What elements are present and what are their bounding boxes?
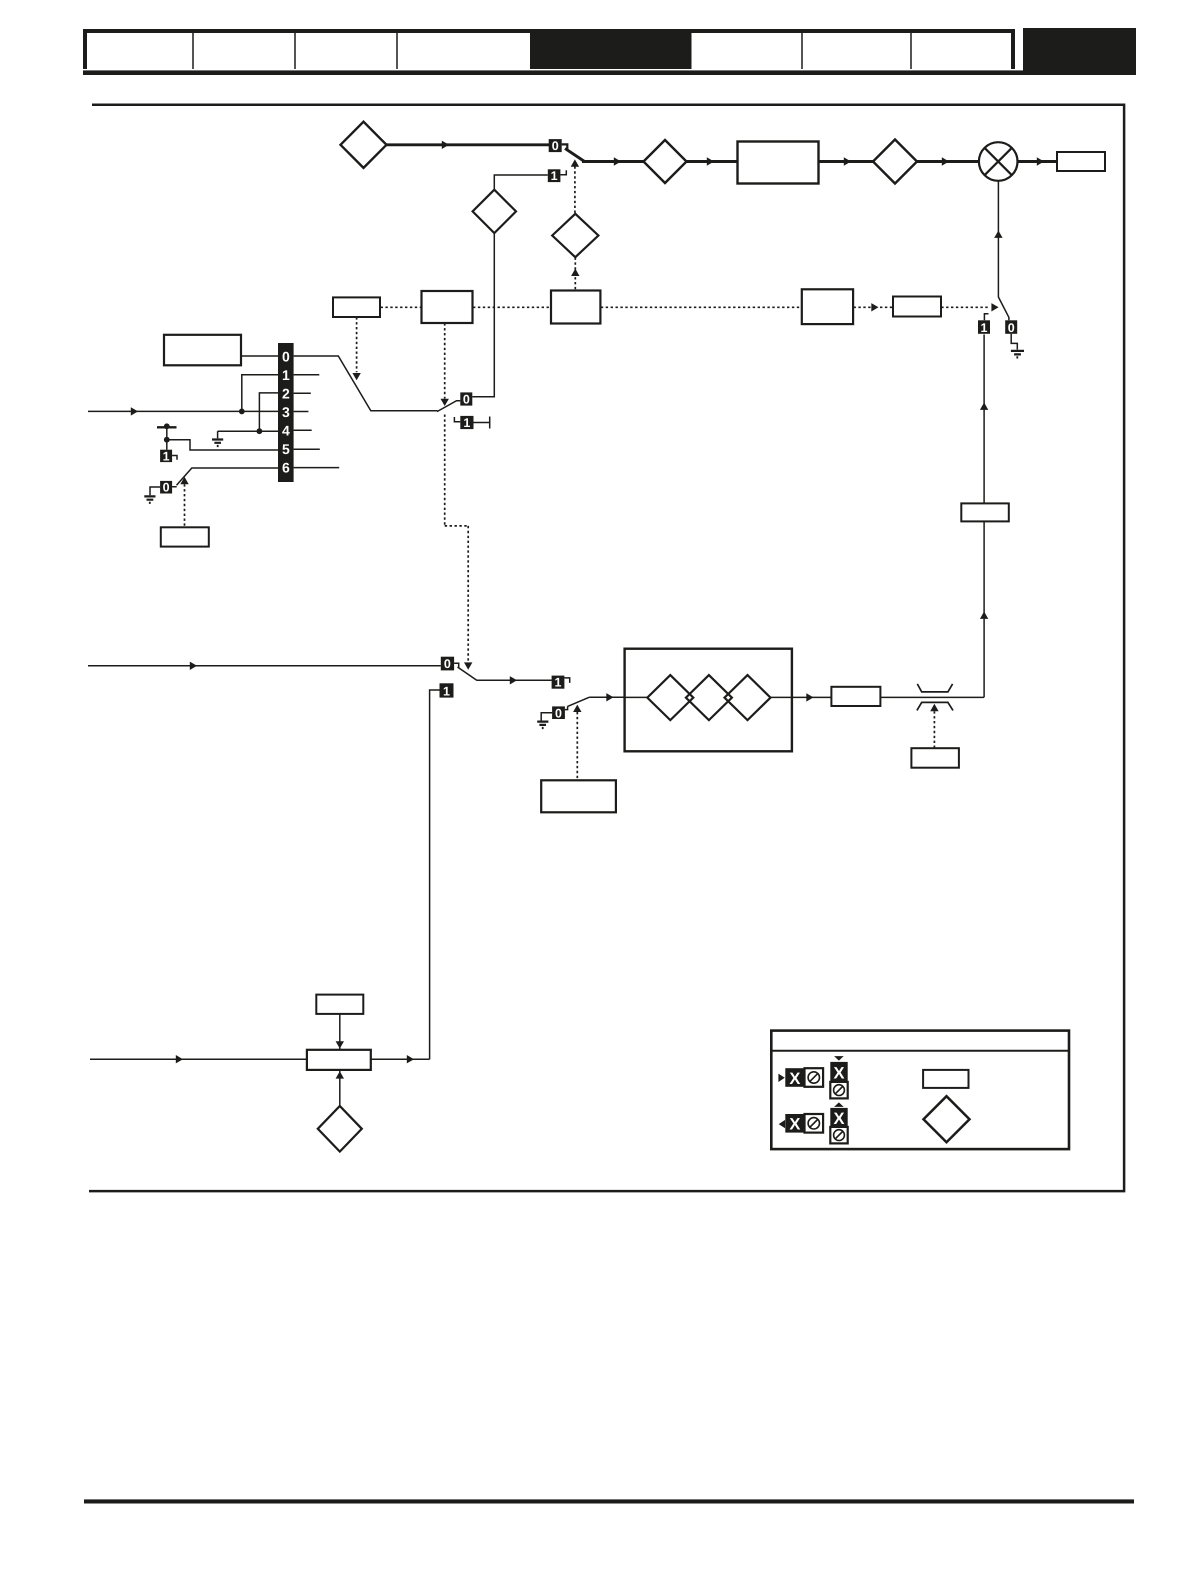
multiplier circle M1 <box>979 142 1018 181</box>
legend vertical white slash box <box>830 1082 847 1099</box>
selector bar stub 4 <box>294 429 312 431</box>
ground symbol at SWL0 <box>144 496 155 502</box>
arrowhead on wire <box>407 1055 414 1063</box>
dotted wire R5 to R3 <box>473 306 551 308</box>
SWL0 lever to bar level 6 <box>172 468 278 487</box>
feedback wire continues up <box>983 335 985 504</box>
svg-text:6: 6 <box>282 459 290 475</box>
wire SW1 to diamond D2 (thick) <box>582 160 644 163</box>
SWB contact 0 stub <box>454 663 459 668</box>
SW1 lever <box>565 148 585 161</box>
svg-text:X: X <box>789 1116 800 1134</box>
arrowhead on wire <box>510 676 517 684</box>
arrowhead on wire <box>606 693 613 701</box>
svg-text:3: 3 <box>282 404 290 420</box>
legend key box <box>771 1031 1069 1150</box>
control parameter box R3 <box>551 291 600 324</box>
SWB contact 1 hook to feedback wire <box>430 690 440 1059</box>
switch SWA contact 0 box <box>460 392 472 405</box>
ground symbol at SWC <box>537 722 548 728</box>
SWA contact 1 hook <box>454 417 460 422</box>
arrowhead on wire <box>1037 157 1044 165</box>
wire through ramp box <box>625 696 792 698</box>
svg-text:0: 0 <box>1008 321 1015 335</box>
header cell divider <box>396 33 398 69</box>
svg-text:0: 0 <box>555 706 562 720</box>
header active menu cell (black) <box>530 31 692 69</box>
wire R1 to diamond D3 (thick) <box>819 160 874 163</box>
input wire 1 from left edge <box>88 410 278 412</box>
dotted wire R7 to top-right switch with arrowhead <box>941 306 988 308</box>
selector output wire position 0 to wiper <box>294 356 438 411</box>
svg-text:0: 0 <box>552 139 559 153</box>
svg-text:1: 1 <box>463 416 470 430</box>
ground symbol at SWT <box>1011 351 1024 358</box>
dotted control R4 down to selector wiper <box>356 317 358 372</box>
monitor box R13 on feedback wire <box>961 503 1009 521</box>
parameter box R11 <box>831 687 880 706</box>
selector bar stub 5 <box>294 448 320 450</box>
SWC contact 0 stub and lever <box>565 697 589 709</box>
monitor diamond D3 <box>873 140 917 184</box>
legend header line <box>770 1050 1070 1052</box>
dotted control from R5 down to SWA and SWB <box>444 323 446 398</box>
legend input terminal black X box <box>785 1068 804 1087</box>
junction dot input1/level1 <box>239 409 245 415</box>
svg-text:1: 1 <box>981 321 988 335</box>
selector bar stub 6 <box>294 467 340 469</box>
arrowhead on wire <box>442 141 449 149</box>
wire D9 up into pad block <box>339 1070 341 1106</box>
wire ramp box to R11 <box>792 696 831 698</box>
svg-text:X: X <box>833 1110 844 1128</box>
SW1 contact 1 stub <box>560 170 566 174</box>
switch SWA lever <box>437 401 460 412</box>
legend diamond sample <box>924 1096 970 1142</box>
svg-text:X: X <box>833 1065 844 1083</box>
SW1 contact 0 stub <box>562 144 568 149</box>
control parameter box R10 <box>541 780 616 812</box>
ramp diamond DR1 <box>647 675 693 720</box>
wire multiplier to output box (thick) <box>1018 160 1058 163</box>
legend input arrow <box>778 1074 784 1082</box>
wire SW1 contact1 to diamond D4 <box>494 175 548 190</box>
switch SWL1 contact 1 box <box>160 450 172 462</box>
control diamond D5 <box>552 214 598 257</box>
svg-text:0: 0 <box>163 481 170 495</box>
control parameter box R4 <box>333 297 380 317</box>
switch SW1 contact 0 box <box>549 139 562 152</box>
switch SWA contact 1 box <box>460 416 473 429</box>
svg-text:1: 1 <box>163 449 170 463</box>
dotted wire R6 to R7 with arrowhead <box>854 306 872 308</box>
control parameter box R7 <box>893 297 941 317</box>
parameter box R1 <box>738 142 819 184</box>
wire SWC contact 0 to ground <box>541 713 552 721</box>
wire junction to bar level 5 <box>167 440 278 450</box>
arrowhead input 2 <box>190 662 197 670</box>
switch SWC contact 1 box <box>552 676 565 689</box>
svg-text:1: 1 <box>555 676 562 690</box>
wire SWB lever to SWC contact 1 <box>477 679 552 681</box>
switch SWT contact 0 box <box>1005 320 1017 334</box>
arrowhead up <box>980 403 988 410</box>
control parameter box R12 <box>911 748 959 768</box>
svg-text:1: 1 <box>282 367 290 383</box>
arrowhead input 1 <box>131 407 138 415</box>
legend vertical black X box <box>830 1062 847 1082</box>
wire SWL0 to ground <box>150 487 160 495</box>
selector bar stub 1 <box>294 374 320 376</box>
legend output terminal white slash box <box>805 1114 824 1133</box>
junction dot <box>164 437 170 443</box>
monitor diamond D2 <box>644 140 687 183</box>
footer rule <box>84 1499 1134 1503</box>
arrowhead input 3 <box>176 1055 183 1063</box>
SWB lever <box>458 667 477 680</box>
switch SWC contact 0 box <box>552 706 565 719</box>
svg-text:X: X <box>789 1070 800 1088</box>
arrowhead on wire <box>614 157 621 165</box>
arrowhead on wire <box>707 157 714 165</box>
SWC contact 1 stub <box>564 678 569 683</box>
wire bar level 2 <box>259 393 278 431</box>
ground symbol at level 4 <box>217 431 219 438</box>
svg-text:2: 2 <box>282 385 290 401</box>
header menu table <box>83 29 1015 69</box>
selector bar stub 2 <box>294 392 311 394</box>
legend output terminal black X box <box>785 1114 804 1133</box>
switch SW1 contact 1 box <box>548 169 561 182</box>
header cell divider <box>801 33 803 69</box>
svg-text:4: 4 <box>282 422 290 438</box>
wire D2 to rectangle R1 (thick) <box>687 160 738 163</box>
skip filter top bracket <box>917 684 952 692</box>
legend vertical pair down arrow <box>834 1056 844 1061</box>
switch SWT contact 1 box <box>978 320 990 334</box>
wire SWC lever to ramp box <box>589 696 625 698</box>
wire D4 down to selector switch SWA contact 0 <box>472 233 494 397</box>
selector bar stub 3 <box>294 411 309 413</box>
preset parameter box R8 <box>164 335 241 366</box>
diagram frame (top, right, bottom) <box>89 105 1124 1191</box>
reference parameter diamond D1 <box>341 122 387 168</box>
input wire 3 from left edge <box>90 1058 307 1060</box>
header cell divider <box>192 33 194 69</box>
scale parameter box R14 <box>316 995 363 1014</box>
legend parameter box sample <box>923 1070 968 1088</box>
legend vertical white slash box 2 <box>830 1127 847 1144</box>
SWT contact 0 wire to ground <box>1011 334 1017 350</box>
SWT common wire up to multiplier <box>997 181 999 297</box>
source diamond D4 <box>473 190 516 233</box>
monitor diamond D9 <box>318 1106 362 1152</box>
control parameter box R9 <box>161 527 209 546</box>
arrowhead on wire <box>806 693 813 701</box>
ramp diamond DR3 <box>725 675 771 720</box>
input terminal T1 bar with dot <box>157 426 177 428</box>
wire up to bar level 1 <box>242 375 278 412</box>
SWA contact 1 terminal bar <box>474 417 490 429</box>
legend vertical pair up arrow <box>834 1102 844 1107</box>
header cell divider <box>910 33 912 69</box>
svg-text:5: 5 <box>282 441 290 457</box>
SW1 control arrow (dotted) <box>574 166 576 213</box>
wire pad block to feedback riser <box>371 1058 430 1060</box>
input wire 2 from left edge <box>88 665 441 667</box>
arrowhead up <box>994 231 1002 238</box>
header right black tab box <box>1023 28 1136 73</box>
SWT contact 1 hook <box>984 314 988 321</box>
multiplier X stroke <box>985 148 1012 175</box>
dotted control R12 up to skip filter <box>933 711 935 748</box>
arrowhead on wire <box>844 157 851 165</box>
svg-text:0: 0 <box>463 393 470 407</box>
svg-text:1: 1 <box>551 169 558 183</box>
wire R14 down into pad block <box>339 1014 341 1050</box>
SWL1 contact 1 stub <box>172 456 177 460</box>
SWT lever <box>998 297 1009 320</box>
skip filter bottom bracket <box>917 702 953 710</box>
dotted wire D5 to control box R3 <box>574 258 576 291</box>
header cell divider <box>294 33 296 69</box>
svg-text:0: 0 <box>444 657 451 671</box>
switch SWB contact 0 box <box>441 657 454 671</box>
wire D1 to switch SW1 contact 0 (thick) <box>387 143 550 146</box>
wire bar level 4 from ground <box>218 430 278 432</box>
wire R11 to right corner <box>880 696 984 698</box>
ramp diamond DR2 <box>686 675 732 720</box>
svg-text:0: 0 <box>282 348 290 364</box>
wire D3 to multiplier (thick) <box>917 160 979 163</box>
ramp block box <box>625 649 792 752</box>
legend input terminal white slash box <box>805 1068 824 1087</box>
dotted control R9 up to SWL0 lever <box>184 484 186 527</box>
pad block box <box>307 1050 371 1070</box>
wire terminal down to switch SWL1 contact 1 <box>166 427 168 450</box>
output parameter box R2 <box>1057 152 1105 171</box>
dotted control row y=307 <box>381 306 422 308</box>
svg-text:1: 1 <box>443 684 450 698</box>
legend output arrow <box>779 1120 785 1128</box>
junction dot level2/level4 <box>257 428 263 434</box>
selector mux bar <box>278 343 294 482</box>
arrowhead on wire <box>942 157 949 165</box>
dotted control R10 up to SWC lever <box>576 712 578 780</box>
control parameter box R5 <box>422 291 473 323</box>
wire R8 to selector bar input 0 <box>241 355 278 357</box>
switch SWL0 contact 0 box <box>160 481 172 494</box>
switch SWB contact 1 box <box>440 683 454 697</box>
header underline rule <box>83 70 1136 75</box>
arrowhead up <box>980 612 988 619</box>
feedback wire up right side <box>983 521 985 697</box>
dotted wire R3 to R6 <box>601 306 802 308</box>
legend vertical black X box 2 <box>830 1108 847 1127</box>
control parameter box R6 <box>802 289 853 324</box>
